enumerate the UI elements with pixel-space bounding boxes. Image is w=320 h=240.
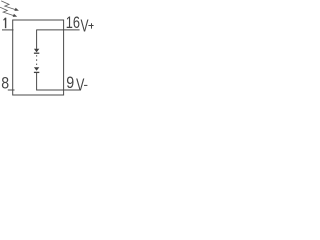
- light arrow A2 head: [13, 14, 18, 17]
- IC body U1: [13, 20, 64, 95]
- photodiode D1 cathode bar: [34, 52, 39, 54]
- pin 1 label: [4, 18, 6, 29]
- photodiode D1: [34, 49, 39, 53]
- svg-text:V: V: [81, 17, 89, 36]
- svg-text:9: 9: [66, 74, 74, 92]
- pin 16 wire (V+): [37, 29, 80, 31]
- light arrow A1: [1, 1, 15, 10]
- photodiode D2: [34, 67, 39, 71]
- photodiode D2 cathode bar: [34, 71, 39, 73]
- light arrow A1 head: [14, 8, 19, 11]
- pin 8 wire: [8, 89, 15, 91]
- V+ plus sign: [88, 23, 93, 28]
- dashed wire (array continuation): [36, 55, 38, 65]
- svg-text:16: 16: [66, 14, 80, 32]
- svg-text:8: 8: [1, 74, 9, 92]
- svg-text:V: V: [76, 76, 84, 96]
- pin 1 wire: [2, 29, 14, 31]
- pin 9 wire (V-) and chain bottom wire: [37, 89, 80, 91]
- photodiode chain wire top: [36, 30, 38, 49]
- V- minus sign: [84, 84, 87, 86]
- light arrow A2: [0, 7, 14, 15]
- photodiode chain wire bottom: [36, 73, 38, 91]
